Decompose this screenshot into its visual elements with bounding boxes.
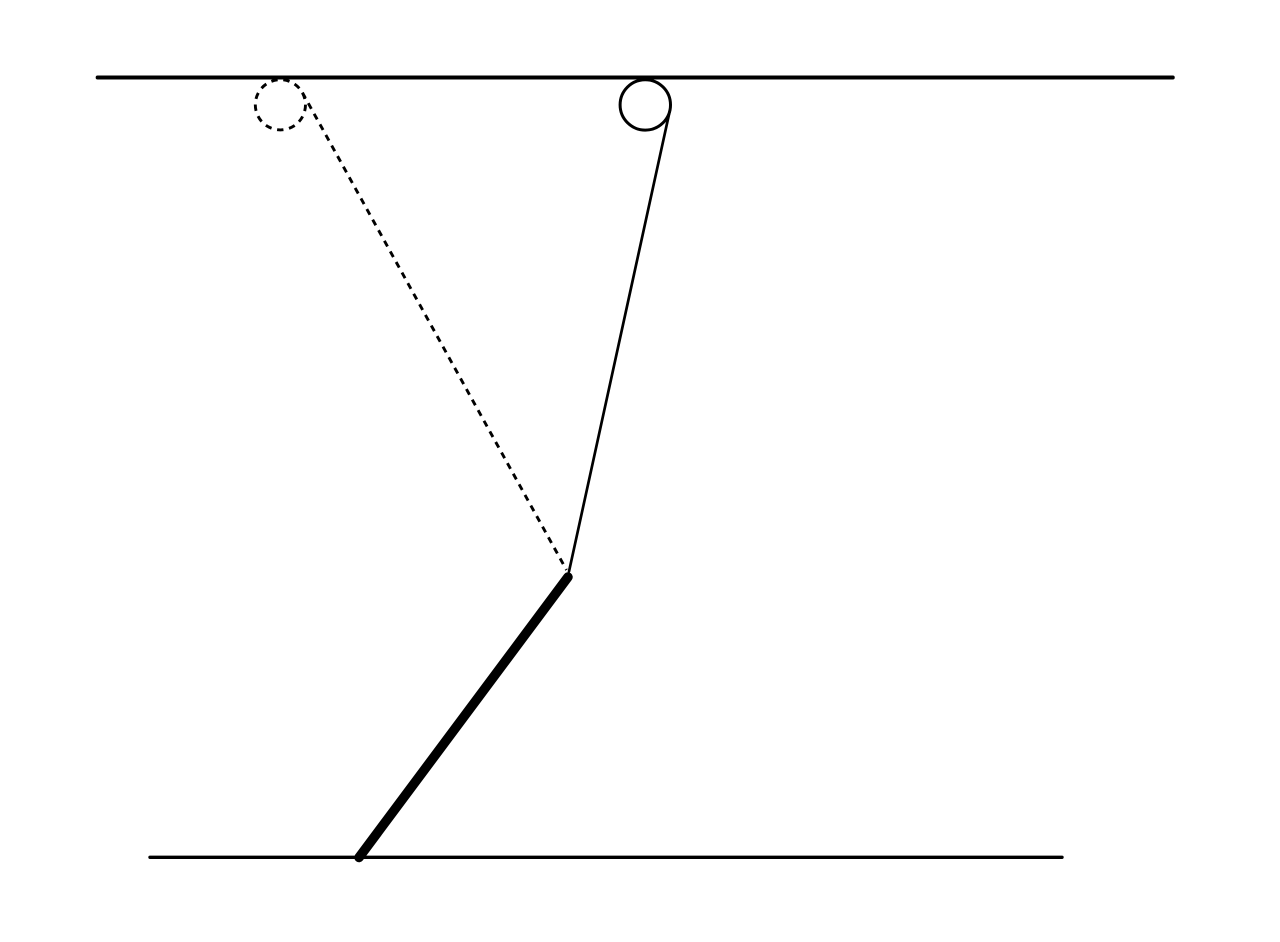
string S1 (dashed, initial position) [302, 93, 566, 570]
floor line [150, 856, 1062, 859]
pulley P2 [620, 80, 670, 130]
string S2 [569, 110, 670, 571]
pulley P1 (dashed, initial position) [255, 80, 305, 130]
rod [359, 577, 568, 858]
ceiling line [98, 76, 1173, 80]
